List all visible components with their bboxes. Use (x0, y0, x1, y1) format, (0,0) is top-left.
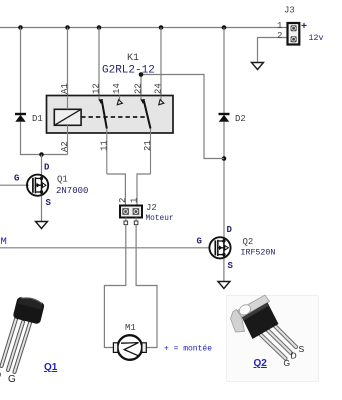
svg-text:D: D (44, 163, 50, 173)
svg-text:G2RL2-12: G2RL2-12 (102, 65, 155, 77)
svg-text:S: S (46, 198, 52, 208)
svg-text:Moteur: Moteur (146, 215, 174, 223)
svg-text:K1: K1 (127, 53, 139, 64)
svg-text:G: G (14, 174, 19, 184)
connector J2 (107, 174, 174, 225)
wire Q2 source (223, 258, 225, 281)
motor M1 (113, 323, 146, 360)
wire Q1 source (41, 196, 43, 222)
relay coil (54, 109, 81, 125)
svg-text:+: + (301, 22, 307, 33)
svg-text:D1: D1 (32, 114, 43, 124)
svg-text:2: 2 (118, 198, 128, 203)
photo Q2 TO-220 (227, 295, 319, 382)
svg-text:D: D (227, 225, 233, 235)
wire A1 stub (67, 96, 69, 110)
legs (260, 323, 296, 359)
svg-text:M1: M1 (125, 323, 136, 333)
svg-text:D: D (0, 370, 1, 381)
svg-text:+ = montée: + = montée (164, 345, 212, 354)
node junction pin24/rail (159, 25, 164, 30)
connector J3 (252, 6, 324, 70)
relay dashed actuator line (81, 116, 148, 118)
node junction A1/rail (65, 25, 70, 30)
tab hole (237, 303, 252, 317)
wire D2 bottom to Q2 drain (223, 122, 225, 238)
node junction pin12/rail (97, 25, 102, 30)
pad J2-1 (134, 221, 138, 225)
wire J2 pin2 to motor left (104, 225, 125, 348)
wire pin21 stub (150, 129, 152, 175)
wire pin24 (160, 28, 162, 97)
wire J2 pin1 stub (135, 218, 137, 222)
ground J3 (252, 63, 264, 70)
relay switch 2 contact 22 stub (140, 96, 142, 101)
relay switch 1 arm (102, 101, 107, 129)
node junction Q1 drain (39, 152, 44, 157)
wire Q1 drain (41, 155, 43, 178)
wire pin11 stub (106, 129, 108, 175)
diode D2 (219, 114, 246, 124)
node junction pin22 (139, 72, 144, 77)
relay switch 2 arm (144, 101, 151, 129)
pad J2-2 (124, 221, 128, 225)
svg-text:IRF520N: IRF520N (241, 248, 276, 257)
svg-text:D: D (291, 351, 297, 361)
wire D1 top (20, 28, 22, 114)
svg-text:G: G (284, 358, 291, 368)
svg-text:S: S (228, 261, 234, 271)
svg-text:22: 22 (134, 83, 144, 94)
svg-text:G: G (8, 374, 16, 385)
wire A2 stub (67, 125, 69, 154)
svg-text:12v: 12v (309, 34, 324, 43)
relay K1 (47, 53, 174, 133)
transistor Q1 2N7000 (0, 155, 88, 222)
svg-text:Q1: Q1 (44, 362, 58, 373)
svg-text:Q2: Q2 (243, 237, 254, 247)
wire D1 bottom to A2 (21, 122, 68, 155)
svg-text:A2: A2 (60, 141, 70, 152)
body (12, 295, 45, 325)
wire Q1 gate (0, 184, 29, 186)
svg-text:11: 11 (99, 140, 109, 151)
wire J2 pin2 stub (125, 218, 127, 222)
svg-text:21: 21 (143, 140, 153, 151)
ground below Q2 (218, 282, 230, 289)
tab metal strip (238, 295, 270, 317)
node junction D2/pin22 net (222, 156, 227, 161)
ground below Q1 (36, 222, 48, 229)
relay switch 1 tip (99, 99, 104, 104)
node junction D2/rail (222, 25, 227, 30)
svg-text:2: 2 (277, 31, 282, 41)
diode D1 (15, 114, 43, 124)
wire pin22 to Q2 drain net (141, 75, 224, 159)
legs (2, 319, 31, 372)
svg-text:G: G (197, 237, 202, 247)
svg-text:24: 24 (154, 83, 164, 94)
svg-text:1: 1 (277, 21, 282, 31)
svg-text:M: M (1, 236, 7, 248)
net M wire (0, 247, 210, 249)
wire top +12V rail (0, 27, 288, 29)
wire A1 (67, 28, 69, 97)
svg-text:S: S (299, 344, 305, 354)
node junction D1/rail (18, 25, 23, 30)
svg-text:14: 14 (112, 83, 122, 94)
wire pin21 to J2 pin1 (137, 174, 151, 206)
relay contact 24 stub with arrowhead (159, 96, 164, 105)
relay switch 1 contact 12 stub (98, 96, 100, 101)
wire pin11 to J2 pin2 (107, 174, 126, 206)
svg-text:J2: J2 (146, 203, 157, 213)
wire J3 pin2 to ground (258, 38, 288, 63)
svg-text:D2: D2 (235, 114, 246, 124)
tab flange (231, 310, 245, 333)
svg-text:A1: A1 (60, 83, 70, 94)
svg-text:12: 12 (92, 83, 102, 94)
svg-text:2N7000: 2N7000 (56, 186, 88, 196)
op Q2 symbol (209, 237, 230, 258)
op Q1 symbol (27, 175, 48, 196)
wire J2 pin1 to motor right (136, 225, 157, 348)
svg-text:J3: J3 (284, 6, 295, 16)
relay contact 14 stub with arrowhead (117, 96, 122, 105)
svg-text:Q1: Q1 (57, 175, 68, 185)
transistor Q2 IRF520N (197, 225, 276, 282)
body black (242, 303, 279, 340)
relay switch 2 tip (141, 99, 146, 104)
wire pin12 (98, 28, 100, 97)
svg-text:Q2: Q2 (254, 358, 268, 369)
wire D2 top (223, 28, 225, 114)
photo Q1 TO-92 (0, 295, 58, 385)
svg-text:1: 1 (130, 198, 140, 203)
